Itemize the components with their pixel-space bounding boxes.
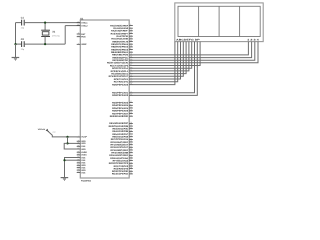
svg-text:12: 12 — [130, 50, 132, 53]
svg-text:49: 49 — [130, 148, 132, 151]
svg-text:RC6/TX1/CK1: RC6/TX1/CK1 — [114, 78, 129, 81]
svg-text:7: 7 — [130, 132, 131, 135]
wire U1 to display segment DP — [129, 42, 200, 66]
svg-text:VCAP: VCAP — [81, 136, 87, 139]
ground — [15, 44, 17, 57]
svg-text:4: 4 — [130, 103, 131, 106]
svg-text:RA3/AN3/VREF+: RA3/AN3/VREF+ — [111, 32, 129, 35]
svg-text:RF6/AN11/C1INA: RF6/AN11/C1INA — [110, 157, 128, 160]
svg-text:RB3/INT3/PMA2: RB3/INT3/PMA2 — [111, 48, 129, 51]
svg-text:32: 32 — [130, 114, 132, 117]
svg-text:RC5/SDO1/C2OUT: RC5/SDO1/C2OUT — [109, 75, 129, 78]
svg-text:RC0/T1OSO/T13CKI: RC0/T1OSO/T13CKI — [107, 62, 129, 65]
wire VDD loop — [64, 143, 80, 149]
svg-text:RB7/KBI3/PGD: RB7/KBI3/PGD — [112, 59, 128, 62]
svg-text:RF4/AN9/C2INB: RF4/AN9/C2INB — [111, 151, 128, 154]
svg-text:RE3/AD11/P3C: RE3/AD11/P3C — [113, 128, 129, 131]
svg-text:44: 44 — [130, 39, 132, 42]
node terminal branch — [66, 136, 68, 138]
wire U1 to display digit 3 — [129, 42, 255, 61]
svg-text:RA5/AN4/LVDIN: RA5/AN4/LVDIN — [111, 38, 128, 41]
wire ground bus — [65, 158, 81, 178]
wire terminal to MCU — [49, 132, 81, 137]
display 7SEG-MPX4 outer — [175, 3, 263, 42]
svg-text:45: 45 — [130, 169, 132, 172]
display digit divider — [198, 6, 200, 36]
svg-text:17: 17 — [130, 158, 132, 161]
svg-text:9: 9 — [130, 26, 131, 29]
svg-text:RE0/RD/AD8/P2D: RE0/RD/AD8/P2D — [110, 115, 129, 118]
svg-text:AVSS: AVSS — [81, 154, 87, 157]
svg-text:35: 35 — [130, 142, 132, 145]
svg-text:RA1/AN1/AN0: RA1/AN1/AN0 — [113, 27, 129, 30]
svg-text:RE4/AD12/P3B: RE4/AD12/P3B — [112, 130, 128, 133]
svg-text:VCC=5V: VCC=5V — [38, 128, 46, 131]
svg-text:RF0/AN5/CVREF: RF0/AN5/CVREF — [111, 141, 129, 144]
svg-text:RD7/PSP7/AD7: RD7/PSP7/AD7 — [112, 112, 129, 115]
svg-text:CRYSTAL: CRYSTAL — [52, 34, 60, 37]
svg-text:60: 60 — [130, 129, 132, 132]
svg-text:RD4/PSP4/AD4: RD4/PSP4/AD4 — [112, 104, 129, 107]
svg-text:3: 3 — [130, 153, 131, 156]
wire U1 to display segment A — [129, 42, 175, 85]
ground — [64, 174, 66, 178]
svg-text:AVDD: AVDD — [81, 151, 87, 154]
svg-text:RC7/RX1/DT1: RC7/RX1/DT1 — [114, 81, 129, 84]
svg-text:42: 42 — [130, 145, 132, 148]
svg-text:VDD: VDD — [81, 148, 86, 151]
display digit divider — [218, 6, 220, 36]
wire U1 to display segment F — [129, 42, 189, 71]
svg-text:RG0/CCP3/ECCP3: RG0/CCP3/ECCP3 — [109, 162, 129, 165]
svg-text:38: 38 — [130, 166, 132, 169]
wire U1 to display segment G1 — [129, 42, 194, 93]
svg-text:RE1/WR/AD9/P2C: RE1/WR/AD9/P2C — [109, 122, 128, 125]
svg-text:RG2/RX2/DT2: RG2/RX2/DT2 — [114, 167, 129, 170]
svg-text:RA0/AN0/CVREF: RA0/AN0/CVREF — [110, 24, 129, 27]
svg-text:RF5/AN10/CVREF: RF5/AN10/CVREF — [109, 154, 129, 157]
svg-text:24: 24 — [130, 161, 132, 164]
svg-text:RD6/PSP6/AD6: RD6/PSP6/AD6 — [112, 110, 129, 113]
wire left bus vertical — [15, 23, 17, 44]
svg-text:46: 46 — [130, 124, 132, 127]
svg-text:RE5/AD13/P1C: RE5/AD13/P1C — [112, 133, 128, 136]
svg-text:RF7/SS1/AN12: RF7/SS1/AN12 — [113, 159, 129, 162]
MCU left pin stubs and labels — [77, 22, 81, 24]
wire U1 to display segment G2 — [129, 42, 197, 96]
node ground bus junction — [63, 159, 65, 161]
svg-text:30: 30 — [130, 34, 132, 37]
svg-text:28: 28 — [130, 140, 132, 143]
svg-text:21: 21 — [130, 137, 132, 140]
svg-text:2: 2 — [130, 23, 131, 26]
svg-text:RB6/KBI2/PGC: RB6/KBI2/PGC — [112, 56, 128, 59]
wire U1 to display segment B — [129, 42, 178, 82]
node C2 bus junction — [14, 43, 16, 45]
wire VDD branch — [68, 137, 81, 144]
svg-text:RE2/CS/AD10/P2B: RE2/CS/AD10/P2B — [109, 125, 129, 128]
svg-text:18: 18 — [130, 108, 132, 111]
svg-text:XTAL1: XTAL1 — [81, 21, 88, 24]
svg-text:11: 11 — [130, 106, 132, 109]
svg-text:RF2/AN7/C1OUT: RF2/AN7/C1OUT — [111, 146, 129, 149]
svg-text:pwr: pwr — [53, 131, 56, 133]
svg-text:RF1/AN6/C2OUT: RF1/AN6/C2OUT — [111, 143, 129, 146]
svg-text:RB2/INT2/PMA3: RB2/INT2/PMA3 — [111, 46, 129, 49]
wire U1 to display digit 1 — [129, 42, 248, 55]
svg-text:VREF: VREF — [81, 43, 87, 46]
svg-text:RF3/AN8/CVREF: RF3/AN8/CVREF — [111, 149, 129, 152]
svg-text:57: 57 — [130, 100, 132, 103]
svg-text:RE6/AD14/P1B: RE6/AD14/P1B — [112, 136, 128, 139]
svg-text:39: 39 — [130, 121, 132, 124]
svg-text:RD1/PSP1/AD1: RD1/PSP1/AD1 — [112, 92, 129, 95]
svg-text:PEN: PEN — [81, 35, 86, 38]
svg-text:RC3/SCK1/SCL1: RC3/SCK1/SCL1 — [111, 70, 129, 73]
MCU right pin stubs, labels and pin numbers — [129, 25, 133, 27]
svg-text:RB1/INT1/PMA4: RB1/INT1/PMA4 — [111, 43, 129, 46]
svg-text:PIC18F652: PIC18F652 — [81, 180, 91, 183]
svg-text:25: 25 — [130, 111, 132, 114]
svg-text:RB4/KBI0/PMA1: RB4/KBI0/PMA1 — [111, 51, 129, 54]
wire ground bus pin2 — [65, 159, 81, 161]
svg-text:RB5/KBI1/PGM: RB5/KBI1/PGM — [112, 54, 128, 57]
svg-text:1 2 3 4: 1 2 3 4 — [247, 38, 260, 41]
crystal X1 — [44, 23, 46, 31]
wire C2 to XTAL2 riser — [24, 43, 65, 45]
node crystal bottom junction — [44, 43, 46, 45]
svg-text:RG4/CCP5/P1D: RG4/CCP5/P1D — [112, 173, 129, 176]
svg-text:37: 37 — [130, 36, 132, 39]
svg-text:16: 16 — [130, 28, 132, 31]
svg-text:56: 56 — [130, 150, 132, 153]
wire U1 to display digit 2 — [129, 42, 251, 58]
svg-text:RD3/PSP3/AD3: RD3/PSP3/AD3 — [112, 101, 129, 104]
wire U1 to display segment C — [129, 42, 180, 79]
display inner screen — [178, 6, 260, 36]
wire C1 to XTAL1 — [24, 22, 80, 24]
svg-text:VSS: VSS — [81, 156, 86, 159]
svg-text:RG3/CCP4/P3D: RG3/CCP4/P3D — [112, 170, 129, 173]
svg-text:5: 5 — [130, 47, 131, 50]
svg-text:ABCDEFG DP: ABCDEFG DP — [176, 38, 200, 41]
svg-text:14: 14 — [130, 134, 132, 137]
svg-text:XTAL2: XTAL2 — [81, 24, 88, 27]
svg-text:VSS: VSS — [81, 145, 86, 148]
display digit divider — [239, 6, 241, 36]
svg-text:10: 10 — [130, 156, 132, 159]
svg-text:52: 52 — [130, 172, 132, 175]
svg-text:RC2/CCP1/P1A: RC2/CCP1/P1A — [112, 67, 129, 70]
node crystal top junction — [44, 22, 46, 24]
wire U1 to display segment G — [129, 42, 192, 69]
svg-text:RD0/PSP0/AD0: RD0/PSP0/AD0 — [112, 83, 129, 86]
svg-text:RC4/SDI1/SDA1: RC4/SDI1/SDA1 — [111, 72, 129, 75]
svg-text:RA4/T0CKI: RA4/T0CKI — [117, 35, 129, 38]
svg-text:58: 58 — [130, 44, 132, 47]
svg-text:RA2/AN2/VREF-: RA2/AN2/VREF- — [111, 30, 128, 33]
svg-text:53: 53 — [130, 126, 132, 129]
svg-text:VSS: VSS — [81, 171, 86, 174]
svg-text:31: 31 — [130, 164, 132, 167]
wire U1 to display digit 4 — [129, 42, 258, 63]
svg-text:23: 23 — [130, 31, 132, 34]
svg-text:RG1/TX2/CK2: RG1/TX2/CK2 — [114, 165, 129, 168]
svg-text:RE7/CCP2/AD15: RE7/CCP2/AD15 — [111, 138, 129, 141]
svg-text:VSS: VSS — [81, 159, 86, 162]
wire U1 to display segment E — [129, 42, 186, 74]
svg-text:51: 51 — [130, 42, 132, 45]
svg-text:RD2/PSP2/AD2: RD2/PSP2/AD2 — [112, 94, 129, 97]
capacitor C1 — [16, 22, 22, 24]
wire U1 to display segment D — [129, 42, 183, 77]
MCU U1 body — [80, 20, 129, 178]
svg-text:RB0/INT0/FLT0: RB0/INT0/FLT0 — [112, 40, 129, 43]
capacitor C2 — [16, 43, 22, 45]
svg-text:VDD: VDD — [81, 142, 86, 145]
svg-text:RC1/T1OSI/CCP2: RC1/T1OSI/CCP2 — [110, 64, 129, 67]
svg-text:RD5/PSP5/AD5: RD5/PSP5/AD5 — [112, 107, 129, 110]
